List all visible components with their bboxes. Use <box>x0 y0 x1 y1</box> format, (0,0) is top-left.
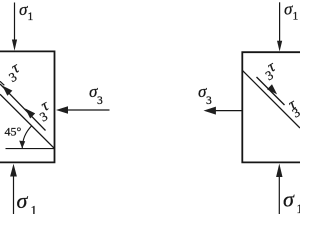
svg-text:1: 1 <box>31 203 38 215</box>
svg-text:3: 3 <box>97 95 103 107</box>
svg-text:3: 3 <box>206 95 212 107</box>
svg-text:1: 1 <box>28 11 34 23</box>
svg-text:1: 1 <box>293 11 299 23</box>
svg-text:σ: σ <box>283 187 295 212</box>
svg-text:σ: σ <box>17 188 29 213</box>
svg-text:1: 1 <box>297 201 301 214</box>
svg-text:45°: 45° <box>5 125 22 139</box>
